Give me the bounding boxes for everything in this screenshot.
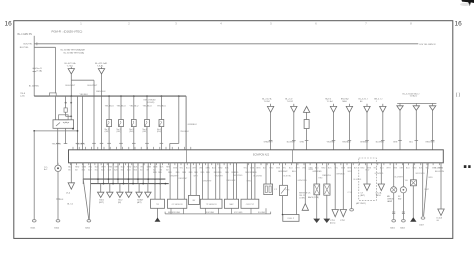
valve 1 lower wire bbox=[316, 195, 318, 219]
option triangle bbox=[364, 184, 370, 191]
collector junction dot2 bbox=[165, 183, 167, 185]
ground triangle g1 bbox=[98, 192, 104, 197]
wire to O2 SENSOR 1 bbox=[169, 163, 171, 199]
junction dot r1 bbox=[65, 102, 67, 104]
svg-text:BL-4Z2 GA1: BL-4Z2 GA1 bbox=[95, 62, 108, 65]
collector junction dot2 bbox=[154, 183, 156, 185]
tick relay wire1 bbox=[56, 142, 60, 144]
ECM ground stub 13 bbox=[147, 163, 149, 184]
svg-text:(M/T): (M/T) bbox=[99, 202, 104, 204]
diagonal ground wire 2 bbox=[89, 184, 90, 220]
TW ground filled bbox=[155, 218, 159, 221]
service check wire bbox=[304, 163, 306, 204]
tick injector 2 bbox=[119, 142, 123, 144]
feed triangle 6 bbox=[366, 104, 368, 107]
wire A to relay return bbox=[34, 130, 77, 132]
ECM top pin ticks bbox=[72, 147, 74, 150]
sensor ground bus bbox=[165, 213, 271, 215]
ECM ground stub 11 bbox=[137, 163, 139, 184]
svg-text:G101: G101 bbox=[30, 227, 36, 229]
resistor wire drop bbox=[178, 96, 180, 143]
injector 4 box bbox=[145, 120, 150, 127]
injector 5 box bbox=[159, 120, 164, 127]
option wire bbox=[366, 163, 368, 184]
injector 1 box bbox=[107, 120, 112, 127]
tick feed 7 bbox=[381, 140, 385, 142]
clock ground filled bbox=[411, 218, 416, 221]
svg-text:(INJ): (INJ) bbox=[129, 131, 134, 133]
svg-text:YEL: YEL bbox=[243, 167, 247, 169]
svg-text:BLU/BLK: BLU/BLK bbox=[354, 179, 363, 181]
svg-text:(A/T): (A/T) bbox=[361, 194, 366, 197]
feed wire 7 bbox=[382, 112, 384, 149]
vtec wire lower bbox=[306, 129, 308, 150]
tick feed 3 bbox=[305, 140, 309, 142]
tick RED/BLK wire bbox=[100, 142, 104, 144]
tick injector 3 bbox=[132, 142, 136, 144]
component box CKP/CYP bbox=[241, 199, 259, 208]
svg-text:(INJ): (INJ) bbox=[157, 131, 162, 133]
svg-text:BL-4Z2 GA: BL-4Z2 GA bbox=[65, 62, 76, 65]
ground triangle g2 bbox=[107, 192, 113, 197]
ground collector H2 bbox=[91, 183, 169, 185]
tick injector 1 bbox=[107, 142, 111, 144]
ground triangle GT0 bbox=[68, 183, 74, 189]
svg-text:(A/T ONLY): (A/T ONLY) bbox=[356, 202, 366, 205]
alt wire diagonal bbox=[424, 163, 429, 216]
wire A lower end oval bbox=[32, 220, 36, 222]
svg-text:RED/BLU: RED/BLU bbox=[342, 142, 351, 144]
sensor circle symbol bbox=[57, 163, 59, 165]
tick feed 9 bbox=[415, 140, 419, 142]
svg-text:YEL/BLK: YEL/BLK bbox=[180, 131, 189, 133]
ECM ground stub 6 bbox=[112, 163, 114, 184]
svg-text:B26: B26 bbox=[134, 169, 137, 171]
tacho triangle bbox=[378, 184, 384, 191]
svg-text:BLU: BLU bbox=[292, 171, 296, 173]
collector junction dot bbox=[159, 178, 161, 180]
svg-text:T-8 B2: T-8 B2 bbox=[287, 101, 294, 103]
svg-text:BL-4 GRN PN: BL-4 GRN PN bbox=[18, 34, 33, 36]
feed wire 9 bbox=[415, 110, 417, 149]
ECM ground stub 8 bbox=[123, 163, 125, 184]
wire to MAP 3 bbox=[236, 163, 238, 199]
alt end oval bbox=[421, 217, 425, 219]
tick feed 4 bbox=[332, 140, 336, 142]
valve box 1 bbox=[314, 184, 320, 195]
ECM ground stub 2 bbox=[90, 163, 92, 184]
svg-text:TW: TW bbox=[156, 204, 159, 206]
right margin dots bbox=[464, 165, 467, 168]
svg-text:A20: A20 bbox=[114, 168, 117, 171]
component box IAT bbox=[189, 195, 200, 204]
ECM strip divider 1 bbox=[185, 150, 187, 163]
feed wire 10 bbox=[432, 110, 434, 149]
svg-text:G102: G102 bbox=[54, 227, 60, 229]
svg-text:BRN: BRN bbox=[153, 167, 158, 169]
junction dot wireA return bbox=[33, 130, 35, 132]
svg-text:BRN: BRN bbox=[429, 177, 434, 179]
wire to 2pin connector 1 bbox=[265, 163, 267, 184]
wire to O2 SENSOR 3 bbox=[183, 163, 185, 199]
relay contact wire bbox=[70, 96, 72, 120]
feed wire 5 bbox=[348, 112, 350, 149]
wire B long feed to page right bbox=[34, 43, 418, 45]
injector wire 1 lower bbox=[108, 127, 110, 150]
connector triangle 1 bbox=[332, 210, 338, 217]
relay feed wire C lower bbox=[55, 96, 57, 120]
PGM-FI main relay box bbox=[53, 120, 74, 129]
svg-text:WHT/RED: WHT/RED bbox=[234, 175, 243, 177]
svg-text:A24: A24 bbox=[127, 168, 130, 171]
svg-text:BLK/YEL: BLK/YEL bbox=[24, 44, 34, 46]
svg-text:( ): ( ) bbox=[456, 92, 461, 97]
svg-text:(+B): (+B) bbox=[20, 96, 24, 98]
ECM ground stub 4 bbox=[103, 163, 105, 184]
wire T2 drop RED/BLK bbox=[101, 74, 103, 150]
wire to MAP 1 bbox=[226, 163, 228, 199]
svg-text:T-1 A4: T-1 A4 bbox=[327, 100, 334, 103]
valve wire 1 bbox=[316, 163, 318, 184]
svg-text:RED/GRN: RED/GRN bbox=[227, 180, 236, 182]
svg-text:BLU: BLU bbox=[406, 167, 410, 169]
ELD wire bbox=[351, 163, 353, 209]
svg-text:PGM-FI : (D16Z6-VTEC): PGM-FI : (D16Z6-VTEC) bbox=[52, 29, 83, 33]
ECM ground stub 12 bbox=[142, 163, 144, 184]
svg-text:YEL/BLU: YEL/BLU bbox=[117, 105, 126, 107]
svg-text:GRN/WHT: GRN/WHT bbox=[278, 171, 288, 173]
injector wire 3 lower bbox=[133, 127, 135, 150]
relay coil wire left lower bbox=[65, 112, 67, 116]
svg-text:LAMP: LAMP bbox=[387, 200, 393, 203]
svg-text:BLU: BLU bbox=[121, 167, 125, 169]
junction dot r3 bbox=[70, 115, 72, 117]
svg-text:FUEL P: FUEL P bbox=[288, 218, 295, 220]
main relay coil box bbox=[59, 115, 69, 120]
svg-text:GRN: GRN bbox=[173, 167, 178, 169]
wire to CKP/CYP 2 bbox=[251, 163, 253, 199]
sensor wire down bbox=[57, 172, 59, 220]
ground stub g6 bbox=[147, 184, 149, 193]
svg-text:BRN: BRN bbox=[256, 167, 261, 169]
ignition triangle bbox=[438, 209, 444, 216]
svg-text:E/S YEL BRN W: E/S YEL BRN W bbox=[420, 44, 437, 46]
relay bottom junction dot bbox=[72, 128, 74, 130]
clock lower wire bbox=[412, 186, 414, 218]
wire to IAT 1 bbox=[190, 163, 192, 196]
tick feed 1 bbox=[269, 140, 273, 142]
bus junction dot inj2 bbox=[120, 95, 122, 97]
svg-text:O2 SENSOR: O2 SENSOR bbox=[172, 204, 184, 206]
svg-text:GL C1: GL C1 bbox=[67, 204, 74, 206]
svg-text:RED/YEL: RED/YEL bbox=[322, 175, 331, 177]
svg-text:SENSOR GND: SENSOR GND bbox=[168, 212, 181, 214]
svg-text:BLU/GRN: BLU/GRN bbox=[435, 168, 444, 170]
collector junction dot bbox=[147, 178, 149, 180]
svg-text:No.31 BATTERY(50A): No.31 BATTERY(50A) bbox=[64, 51, 85, 54]
svg-text:BLU: BLU bbox=[380, 167, 384, 169]
wire to CKP/CYP 1 bbox=[246, 163, 248, 199]
collector junction dot bbox=[154, 178, 156, 180]
ground triangle g4 bbox=[126, 192, 132, 197]
valve 2 lower wire bbox=[326, 195, 328, 219]
feed wire 2 bbox=[293, 112, 295, 149]
ignition wire bbox=[440, 163, 442, 209]
svg-text:GRN/RED: GRN/RED bbox=[375, 173, 384, 175]
border frame bbox=[14, 21, 453, 239]
svg-text:T-7 A1: T-7 A1 bbox=[67, 65, 74, 68]
tick feed 5 bbox=[348, 140, 352, 142]
injector wire 4 lower bbox=[146, 127, 148, 150]
dashed option box bbox=[359, 158, 377, 200]
connector triangle T1 bbox=[70, 67, 72, 69]
injector wire 3 upper bbox=[133, 96, 135, 119]
bus junction dot resistor wire bbox=[178, 95, 180, 97]
junction pump bbox=[282, 214, 284, 216]
injector wire 1 upper bbox=[108, 96, 110, 119]
svg-text:BLU/GRN: BLU/GRN bbox=[435, 171, 444, 173]
ground stub g2 bbox=[109, 184, 111, 193]
junction dot r2 bbox=[70, 102, 72, 104]
injector wire 2 lower bbox=[120, 127, 122, 150]
svg-text:SG2 GND: SG2 GND bbox=[206, 212, 215, 214]
injector wire 5 lower bbox=[160, 127, 162, 150]
lamp wire 2 bbox=[402, 163, 404, 187]
collector junction dot2 bbox=[132, 183, 134, 185]
feed wire 1 bbox=[270, 112, 272, 149]
svg-text:(INJ): (INJ) bbox=[143, 131, 148, 133]
ECM ground stub 7 bbox=[117, 163, 119, 184]
svg-text:GRN/BLK: GRN/BLK bbox=[188, 124, 198, 126]
lamp 1 end oval bbox=[392, 220, 396, 222]
svg-text:TACH: TACH bbox=[376, 194, 382, 197]
valve box 2 bbox=[324, 184, 330, 195]
svg-text:RED: RED bbox=[360, 167, 365, 169]
TW box ground drop bbox=[157, 209, 159, 219]
bus horizontal wire bbox=[34, 95, 186, 97]
svg-text:RED/GRN: RED/GRN bbox=[426, 142, 435, 144]
ground stub g3 bbox=[119, 184, 121, 193]
svg-text:GRN: GRN bbox=[393, 142, 398, 144]
svg-text:T-8 A4 J: T-8 A4 J bbox=[410, 95, 418, 98]
svg-text:ECM/PCM A22: ECM/PCM A22 bbox=[253, 154, 270, 157]
bus drop D1 bbox=[77, 96, 79, 150]
wire to IAT 2 bbox=[195, 163, 197, 196]
svg-text:T-8 B4: T-8 B4 bbox=[264, 101, 271, 103]
tick feed 2 bbox=[292, 140, 296, 142]
wire BLK/WHT drop to ECM bbox=[93, 80, 95, 150]
svg-text:(INJ): (INJ) bbox=[117, 131, 122, 133]
svg-text:(D16Z6): (D16Z6) bbox=[147, 102, 155, 104]
collector junction dot2 bbox=[112, 183, 114, 185]
wire to 2pin connector 2 bbox=[270, 163, 272, 184]
component box TP SENSOR bbox=[200, 199, 222, 208]
svg-text:BLU/RED: BLU/RED bbox=[376, 142, 385, 144]
injector wire 2 upper bbox=[120, 96, 122, 119]
svg-text:BLU/WHT: BLU/WHT bbox=[395, 177, 404, 179]
svg-text:GRN: GRN bbox=[114, 167, 119, 169]
component box TW bbox=[151, 199, 165, 208]
injector 2 box bbox=[119, 120, 124, 127]
bus junction dot inj3 bbox=[133, 95, 135, 97]
ground triangle g3 bbox=[117, 192, 123, 197]
wire to TW 2 bbox=[159, 163, 161, 199]
relay coil wire left bbox=[65, 96, 67, 108]
svg-text:G201: G201 bbox=[85, 227, 91, 229]
svg-text:GRN: GRN bbox=[82, 167, 87, 169]
svg-text:BLU: BLU bbox=[95, 167, 99, 169]
wire to CKP/CYP 3 bbox=[254, 163, 256, 199]
svg-text:GRN: GRN bbox=[300, 142, 305, 144]
valve 1 ground bbox=[314, 219, 319, 222]
lamp wire 1 bbox=[393, 163, 395, 187]
svg-text:GRN: GRN bbox=[147, 167, 152, 169]
feed triangle 9 bbox=[415, 103, 417, 105]
lamp 1 lower wire bbox=[393, 193, 395, 219]
svg-text:A12: A12 bbox=[88, 168, 91, 171]
injector 3 box bbox=[131, 120, 136, 127]
svg-text:EACV (PCS): EACV (PCS) bbox=[308, 196, 319, 199]
svg-text:(INJ): (INJ) bbox=[105, 131, 110, 133]
svg-text:RED: RED bbox=[269, 167, 274, 169]
svg-text:VCC GND: VCC GND bbox=[234, 212, 243, 214]
connector triangle 2 bbox=[340, 210, 346, 217]
svg-text:CONN: CONN bbox=[299, 197, 305, 199]
ground collector H1 bbox=[83, 178, 165, 180]
svg-text:GRN/WHT: GRN/WHT bbox=[264, 142, 274, 144]
svg-text:T-8 A1: T-8 A1 bbox=[97, 65, 104, 68]
svg-text:GRN: GRN bbox=[276, 167, 281, 169]
svg-text:(A/T): (A/T) bbox=[137, 201, 142, 204]
common feed bracket bbox=[397, 102, 436, 104]
bus junction dot inj5 bbox=[161, 95, 163, 97]
injector wire 4 upper bbox=[146, 96, 148, 119]
second wire to pump bbox=[296, 163, 298, 215]
svg-text:YEL: YEL bbox=[425, 167, 429, 169]
svg-text:RED: RED bbox=[319, 178, 324, 180]
ECM connector strip bbox=[69, 150, 444, 163]
svg-text:RED: RED bbox=[218, 167, 223, 169]
clock box wire bbox=[412, 163, 414, 180]
collector junction dot2 bbox=[142, 183, 144, 185]
feed triangle 2 bbox=[293, 104, 295, 107]
tick feed 6 bbox=[365, 140, 369, 142]
ECM bottom pin ticks bbox=[69, 163, 71, 165]
tick feed 10 bbox=[431, 140, 435, 142]
bus junction dot inj4 bbox=[146, 95, 148, 97]
wire to TP SENSOR 1 bbox=[202, 163, 204, 199]
svg-text:A16: A16 bbox=[101, 168, 104, 171]
wire T1-T2 bridge bbox=[71, 79, 94, 81]
sensor wire end oval bbox=[56, 220, 60, 222]
svg-text:BL 4(GRN): BL 4(GRN) bbox=[29, 85, 39, 87]
svg-text:BLU: BLU bbox=[289, 167, 293, 169]
svg-text:BLU/WHT: BLU/WHT bbox=[287, 142, 296, 144]
connector wire 2 bbox=[342, 163, 344, 210]
ground triangle g5 bbox=[136, 192, 142, 197]
resistor on relay wire bbox=[64, 108, 67, 112]
tick feed 8 bbox=[398, 140, 402, 142]
svg-text:ORN: ORN bbox=[302, 167, 307, 169]
feed triangle 1 bbox=[270, 104, 272, 107]
wire to solenoid box bbox=[282, 163, 284, 186]
valve wire 2 bbox=[326, 163, 328, 184]
collector junction dot bbox=[117, 178, 119, 180]
svg-text:BLK: BLK bbox=[60, 199, 64, 201]
svg-text:(M): (M) bbox=[118, 202, 121, 204]
bus drop D2 bbox=[82, 96, 84, 150]
ground stub g1 bbox=[100, 184, 102, 193]
svg-text:ORN: ORN bbox=[199, 167, 204, 169]
warn lamp 1 bbox=[391, 187, 397, 193]
lamp 2 end oval bbox=[402, 220, 406, 222]
svg-text:A8: A8 bbox=[75, 168, 77, 171]
black corner marker bbox=[462, 0, 474, 6]
svg-text:GL: GL bbox=[437, 220, 440, 222]
feed triangle 7 bbox=[382, 104, 384, 107]
svg-text:MAP: MAP bbox=[229, 203, 234, 206]
svg-text:No.32 BATTERY(80A)BAT: No.32 BATTERY(80A)BAT bbox=[61, 48, 86, 51]
ECM ground stub 3 bbox=[97, 163, 99, 184]
svg-text:16: 16 bbox=[455, 21, 463, 28]
collector junction dot bbox=[97, 178, 99, 180]
junction dot D1 bbox=[77, 130, 79, 132]
svg-text:YEL/BLU: YEL/BLU bbox=[157, 105, 166, 107]
clock box bbox=[410, 180, 416, 186]
diagonal end oval bbox=[87, 220, 91, 222]
ground stub GT0 bbox=[70, 163, 72, 183]
collector junction dot2 bbox=[159, 183, 161, 185]
lamp 2 lower wire bbox=[402, 193, 404, 219]
wire to TW 1 bbox=[154, 163, 156, 199]
tacho wire bbox=[380, 163, 382, 184]
svg-text:TP SENSOR: TP SENSOR bbox=[206, 204, 218, 206]
valve 2 ground bbox=[324, 219, 329, 222]
svg-text:YEL: YEL bbox=[282, 167, 286, 169]
wire to MAP 2 bbox=[232, 163, 234, 199]
svg-text:BLU: BLU bbox=[409, 142, 413, 144]
tick BLK/WHT wire bbox=[92, 142, 96, 144]
fuse ticks wire A bbox=[33, 67, 36, 69]
svg-text:YEL/BLU: YEL/BLU bbox=[105, 105, 114, 107]
feed triangle 4 bbox=[333, 104, 335, 107]
feed wire 4 bbox=[333, 112, 335, 149]
relay internal contact bbox=[56, 123, 60, 127]
connector triangle T2 bbox=[101, 67, 103, 69]
feed wire 8 bbox=[399, 110, 401, 149]
svg-text:(DLC): (DLC) bbox=[330, 223, 336, 225]
ECM ground stub 1 bbox=[82, 163, 84, 184]
svg-text:CKP/CYP: CKP/CYP bbox=[246, 204, 255, 206]
svg-text:RED/BLK: RED/BLK bbox=[96, 91, 106, 93]
ECM strip divider 2 bbox=[292, 150, 294, 163]
svg-text:YEL: YEL bbox=[405, 180, 409, 182]
collector junction dot2 bbox=[123, 183, 125, 185]
feed wire 6 bbox=[366, 112, 368, 149]
solenoid lower wire bbox=[282, 196, 284, 215]
svg-text:RED: RED bbox=[127, 167, 132, 169]
svg-text:BLK/YEL: BLK/YEL bbox=[284, 176, 292, 178]
svg-text:RED: RED bbox=[321, 167, 326, 169]
feed triangle 8 bbox=[399, 103, 401, 105]
svg-text:YEL: YEL bbox=[88, 167, 92, 169]
wire B tick bbox=[36, 42, 38, 45]
tick injector 5 bbox=[160, 142, 164, 144]
wire to TP SENSOR 4 bbox=[219, 163, 221, 199]
svg-text:YEL/BLU: YEL/BLU bbox=[129, 105, 138, 107]
relay out wire 2 bbox=[65, 128, 67, 143]
ground triangle g6 bbox=[145, 192, 151, 197]
